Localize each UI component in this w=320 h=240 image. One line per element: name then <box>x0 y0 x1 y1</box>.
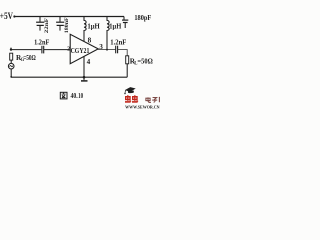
logo char dian <box>146 97 151 102</box>
svg-text:1.2nF: 1.2nF <box>110 39 127 47</box>
capacitor C1 (bypass) <box>36 17 44 31</box>
svg-text:4: 4 <box>87 58 91 66</box>
pin 4 label <box>87 58 91 66</box>
logo char zi <box>152 98 157 103</box>
node L2 output junction dot <box>106 49 108 51</box>
svg-text:10: 10 <box>78 91 83 100</box>
ground bar <box>81 80 88 82</box>
capacitor C2 (bypass) <box>56 17 64 31</box>
svg-text:1.2nF: 1.2nF <box>34 38 50 46</box>
value label 180pF <box>134 13 151 22</box>
pin 2 label <box>67 46 70 52</box>
pin 3 label <box>99 43 103 51</box>
svg-text:8: 8 <box>88 37 92 45</box>
node +5V junction dot <box>13 15 15 17</box>
svg-text:=50Ω: =50Ω <box>23 54 36 62</box>
svg-text:WWW.SEWOR.CN: WWW.SEWOR.CN <box>125 105 160 109</box>
value label 1.2nF <box>110 39 127 47</box>
wire corner to C4 <box>123 17 125 20</box>
value label 1uH <box>109 22 122 30</box>
wire source to ground rail <box>10 69 12 77</box>
node input junction dot <box>10 48 12 50</box>
svg-text:1μH: 1μH <box>87 22 100 30</box>
logo char chong 2 <box>132 95 138 102</box>
wire input line left <box>11 49 41 51</box>
svg-text:+5V: +5V <box>0 12 13 22</box>
wire pin4 to rail <box>83 56 85 80</box>
wire RL to rail <box>126 64 128 77</box>
svg-text:1μH: 1μH <box>109 22 122 30</box>
value label 1.2nF <box>34 38 50 46</box>
node +5V label <box>0 12 13 22</box>
caption 图 40.10 <box>60 91 83 100</box>
wire cap to RL corner <box>118 50 127 56</box>
wire RG to source <box>10 60 12 63</box>
inductor L1 1uH <box>84 17 86 42</box>
wire bottom ground rail <box>11 76 127 78</box>
value label 180nF (rotated) <box>64 17 70 33</box>
resistor RL box <box>126 56 129 64</box>
op-amp U1 CGY21 triangle <box>70 34 98 63</box>
source sine <box>10 66 13 67</box>
resistor RG box <box>10 53 13 60</box>
value label RG=50ohm <box>16 54 36 63</box>
value label CGY21 <box>71 48 90 55</box>
svg-text:180pF: 180pF <box>134 13 151 22</box>
logo mortarboard <box>125 87 136 92</box>
svg-text:22nF: 22nF <box>44 18 50 33</box>
inductor L2 1uH <box>107 17 109 50</box>
svg-text:=50Ω: =50Ω <box>137 58 153 66</box>
capacitor C5 1.2nF (output coupling) <box>116 46 118 54</box>
logo char chong 1 <box>125 95 131 102</box>
value label RL=50ohm <box>130 58 153 67</box>
capacitor C3 1.2nF (input coupling) <box>42 46 44 54</box>
capacitor C4 180pF <box>122 20 128 28</box>
watermark logo <box>124 87 160 109</box>
wire top +5V rail <box>15 16 124 18</box>
node source corner dot <box>10 76 12 78</box>
svg-text:CGY21: CGY21 <box>71 48 90 55</box>
wire input line right <box>44 49 70 51</box>
source generator circle <box>8 63 14 69</box>
pin 8 label <box>88 37 92 45</box>
svg-text:40.: 40. <box>71 91 78 100</box>
node pin4 junction dot <box>83 76 86 79</box>
value label 22nF (rotated) <box>44 18 50 33</box>
wire output line <box>98 49 115 51</box>
value label 1uH <box>87 22 100 30</box>
logo char partial (cut) <box>159 97 160 102</box>
svg-text:180nF: 180nF <box>64 17 70 33</box>
node input corner stub <box>10 48 12 50</box>
